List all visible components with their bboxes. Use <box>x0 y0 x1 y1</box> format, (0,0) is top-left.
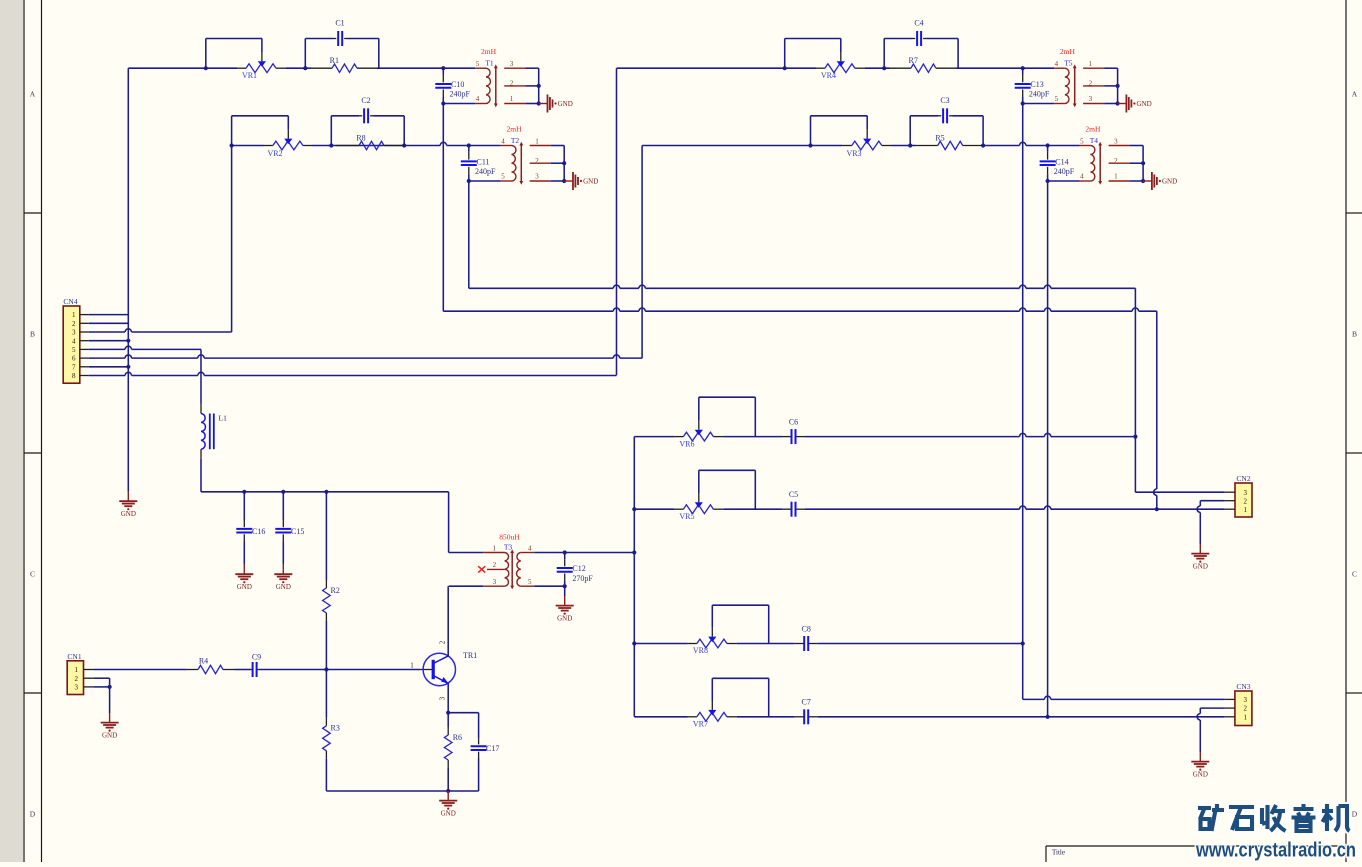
svg-text:2: 2 <box>439 640 447 644</box>
svg-text:4: 4 <box>501 137 505 145</box>
svg-text:850uH: 850uH <box>499 532 520 541</box>
potentiometer VR1 <box>246 64 276 73</box>
resistor R7 <box>911 64 936 72</box>
svg-text:GND: GND <box>583 178 598 186</box>
svg-text:C11: C11 <box>477 158 490 167</box>
svg-text:8: 8 <box>72 372 76 380</box>
wire oscillator rail y=491.8 <box>201 491 449 493</box>
svg-text:CN1: CN1 <box>67 652 81 661</box>
wire VR7 pin stubs <box>688 716 697 718</box>
frame zone tick right y=453 <box>1346 452 1362 454</box>
svg-text:4: 4 <box>476 95 480 103</box>
transistor TR1 <box>423 653 455 685</box>
svg-text:R6: R6 <box>453 733 462 742</box>
svg-text:C5: C5 <box>789 490 798 499</box>
wire CN4 pin5 net <box>89 348 125 350</box>
svg-text:GND: GND <box>1137 100 1152 108</box>
transformer T4 secondary pin 1 lead <box>1109 180 1130 182</box>
connector CN3 <box>1235 691 1252 726</box>
svg-text:R7: R7 <box>909 56 918 65</box>
wire R8 loop right <box>403 116 405 146</box>
wire VR3 row left vertical x=642.1 <box>641 146 643 359</box>
wire R4 pin stubs <box>187 669 198 671</box>
wire T4 primary top lead blue <box>1048 145 1080 147</box>
wire VR6 row y=436.6 <box>634 436 674 438</box>
wire VR7 row middle <box>737 716 795 718</box>
wire VR6 row middle <box>723 436 782 438</box>
junction base node <box>324 667 328 671</box>
resistor R4 <box>198 665 223 673</box>
wire T1 primary top lead blue <box>443 67 475 69</box>
svg-text:240pF: 240pF <box>450 90 471 99</box>
wire CN2 pin 3 stub <box>1225 491 1235 493</box>
wire VR1 right pin stub <box>276 67 286 69</box>
potentiometer VR3 <box>852 141 882 150</box>
ground T5 secondary <box>1118 103 1127 105</box>
svg-text:GND: GND <box>557 614 572 622</box>
capacitor C16 <box>243 492 245 520</box>
svg-text:A: A <box>1352 90 1358 99</box>
wire CN1 pin 3 stub <box>84 686 95 688</box>
svg-text:270pF: 270pF <box>572 574 593 583</box>
wire VR1 wiper loop <box>206 38 262 40</box>
capacitor C13 <box>1022 68 1024 74</box>
svg-text:5: 5 <box>528 578 532 586</box>
wire VR8 row right <box>818 643 1023 645</box>
junction bus VR5 row <box>632 507 636 511</box>
junction VR4 loop left <box>783 66 787 70</box>
svg-text:4: 4 <box>528 544 532 552</box>
junction T4 secondary pin1 <box>1141 179 1145 183</box>
svg-text:2: 2 <box>535 157 539 165</box>
svg-text:4: 4 <box>72 337 76 345</box>
svg-text:VR5: VR5 <box>679 512 694 521</box>
wire C13 node vertical x=1022.7 <box>1022 104 1024 700</box>
wire TR1 base stub <box>421 669 433 671</box>
junction VR2 left <box>230 143 234 147</box>
wire C8 pin stubs <box>795 643 805 645</box>
frame zone tick left y=453 <box>24 452 42 454</box>
junction C14 node joins CN3 pin1 row <box>1046 715 1050 719</box>
wire VR5 row y=509.2 <box>634 508 674 510</box>
ground CN3 <box>1199 752 1201 761</box>
wire VR5 pin stubs <box>674 508 683 510</box>
wire row-A-right horizontal y=68.2 <box>617 67 817 69</box>
transformer T3 secondary winding <box>517 553 521 587</box>
wire T3 secondary top out <box>534 552 634 554</box>
svg-text:1: 1 <box>75 666 79 674</box>
svg-text:1: 1 <box>1089 60 1093 68</box>
potentiometer VR5 <box>683 505 713 514</box>
svg-text:2: 2 <box>75 675 79 683</box>
capacitor C5 <box>791 502 793 517</box>
junction C10 top <box>441 66 445 70</box>
junction R8 loop right <box>402 143 406 147</box>
capacitor C17 <box>478 713 480 739</box>
svg-text:A: A <box>30 90 36 99</box>
wire C3 loop top <box>910 115 938 117</box>
wire C6 pin stubs <box>782 436 792 438</box>
svg-text:3: 3 <box>1114 137 1118 145</box>
junction T5 secondary pin2 <box>1116 84 1120 88</box>
wire VR4 pin stubs <box>816 67 825 69</box>
wire R1 C1 loop left <box>304 39 306 69</box>
potentiometer VR6 <box>683 432 713 441</box>
svg-text:C7: C7 <box>802 698 811 707</box>
wire CN3 pin 1 stub <box>1225 716 1235 718</box>
junction C12 bottom <box>563 584 567 588</box>
wire C5 pin stubs <box>782 508 792 510</box>
svg-text:3: 3 <box>75 684 79 692</box>
frame inner left line <box>41 0 43 862</box>
resistor R3 <box>325 670 327 718</box>
wire T2 primary top lead blue <box>469 145 501 147</box>
frame zone tick left y=693 <box>24 692 42 694</box>
svg-text:C16: C16 <box>252 527 265 536</box>
junction C11 top <box>467 143 471 147</box>
wire CN4 pin 2 stub <box>80 322 89 324</box>
junction VR1 loop left <box>204 66 208 70</box>
svg-text:D: D <box>30 810 36 819</box>
frame zone tick left y=213 <box>24 212 42 214</box>
svg-text:R4: R4 <box>199 656 208 665</box>
wire CN2 pin 2 stub <box>1225 500 1235 502</box>
wire C10 node horizontal y=311.2 <box>443 310 613 312</box>
wire emitter ground bus y=791 <box>326 790 478 792</box>
svg-text:3: 3 <box>510 60 514 68</box>
junction VR8 row joins C13 node <box>1021 641 1025 645</box>
ground emitter <box>447 791 449 800</box>
svg-text:VR8: VR8 <box>693 646 708 655</box>
wire CN1 pin 1 stub <box>84 669 95 671</box>
svg-text:VR3: VR3 <box>846 149 861 158</box>
svg-text:GND: GND <box>558 100 573 108</box>
transformer T4 secondary pin 2 lead <box>1109 162 1130 164</box>
wire VR3 pin stubs <box>842 145 852 147</box>
wire CN4 pin 7 stub <box>80 366 89 368</box>
transformer T5 core <box>1074 67 1076 106</box>
wire VR2 pin stubs <box>264 145 273 147</box>
svg-text:240pF: 240pF <box>1054 167 1075 176</box>
svg-text:2: 2 <box>510 80 514 88</box>
wire VR5 row right <box>805 508 1020 510</box>
svg-text:R3: R3 <box>331 724 340 733</box>
transformer T1 core <box>495 67 497 106</box>
wire CN4 pin 4 stub <box>80 340 89 342</box>
svg-text:C10: C10 <box>451 80 464 89</box>
wire T1 primary bottom lead blue <box>443 103 475 105</box>
wire emitter node horizontal <box>448 712 478 714</box>
svg-text:C15: C15 <box>291 527 304 536</box>
wire T3 pin3 lead blue <box>449 585 484 587</box>
wire CN3 pin3 row y=699.4 <box>1023 698 1045 700</box>
svg-text:T2: T2 <box>511 136 520 145</box>
junction R1 loop left <box>303 66 307 70</box>
svg-text:3: 3 <box>72 329 76 337</box>
junction CN4 pin4 <box>126 339 130 343</box>
wire CN2 pin3 row y=492.2 <box>1135 491 1224 493</box>
svg-text:L1: L1 <box>219 414 228 423</box>
transformer T4 primary <box>1080 145 1091 147</box>
junction R8 loop left <box>329 143 333 147</box>
potentiometer VR2 <box>273 141 303 150</box>
svg-text:GND: GND <box>237 583 252 591</box>
svg-text:3: 3 <box>439 696 447 700</box>
wire CN2 pin 1 stub <box>1225 508 1235 510</box>
capacitor C9 <box>251 669 253 671</box>
svg-text:240pF: 240pF <box>1029 90 1050 99</box>
svg-text:GND: GND <box>1193 562 1208 570</box>
transformer T1 primary <box>475 67 486 69</box>
capacitor C6 <box>791 429 793 444</box>
sheet margin grey strip <box>0 0 23 862</box>
potentiometer VR4 <box>825 64 855 73</box>
ground C15 <box>282 565 284 574</box>
wire T2 primary bottom lead blue <box>469 180 501 182</box>
svg-text:R2: R2 <box>331 586 340 595</box>
svg-text:3: 3 <box>493 578 497 586</box>
wire CN4 pin 8 stub <box>80 375 89 377</box>
wire VR6 row right <box>805 436 1020 438</box>
transformer T2 core <box>520 144 522 183</box>
junction bus T3 feed <box>632 550 636 554</box>
svg-text:3: 3 <box>1089 95 1093 103</box>
svg-text:2mH: 2mH <box>507 124 523 133</box>
junction C12 top <box>563 550 567 554</box>
junction R5 loop left <box>908 143 912 147</box>
wire antenna riser x=201 <box>200 349 202 404</box>
wire VR8 row middle <box>737 643 795 645</box>
wire TR1 emitter <box>447 683 449 712</box>
wire hop row-B-right over C13 vertical <box>1020 142 1026 145</box>
wire VR3 wiper loop <box>811 115 868 117</box>
wire CN1 ground drop <box>109 687 111 713</box>
capacitor C2 <box>359 115 362 117</box>
frame zone tick right y=693 <box>1346 692 1362 694</box>
wire base row y=669.5 <box>94 669 187 671</box>
svg-text:C14: C14 <box>1055 158 1068 167</box>
svg-text:R8: R8 <box>356 134 365 143</box>
svg-text:VR7: VR7 <box>693 720 708 729</box>
junction VR3 loop left <box>808 143 812 147</box>
svg-text:1: 1 <box>1243 713 1247 721</box>
svg-text:B: B <box>1352 330 1357 339</box>
ground C16 <box>243 565 245 574</box>
svg-text:C: C <box>30 570 35 579</box>
svg-text:GND: GND <box>121 510 136 518</box>
transformer T2 secondary pin 3 lead <box>530 180 551 182</box>
wire C7 pin stubs <box>795 716 805 718</box>
wire VR1 left pin stub <box>237 67 246 69</box>
svg-text:4: 4 <box>1055 60 1059 68</box>
svg-text:C: C <box>1352 570 1357 579</box>
wire VR7 row y=716.8 <box>634 716 688 718</box>
svg-text:5: 5 <box>1080 137 1084 145</box>
wire C12 ground drop <box>564 586 566 596</box>
capacitor C1 <box>333 38 336 40</box>
wire CN2 pin2 ground wire <box>1200 500 1224 502</box>
transformer T3 secondary leads <box>521 552 534 554</box>
transformer T3 primary leads <box>483 552 505 554</box>
svg-text:B: B <box>30 330 35 339</box>
wire CN4 pin2 to ground rail <box>89 322 129 324</box>
svg-text:www.crystalradio.cn: www.crystalradio.cn <box>1195 840 1356 862</box>
wire R7 loop right <box>957 39 959 69</box>
wire C2 loop top <box>331 115 359 117</box>
svg-text:C13: C13 <box>1030 80 1043 89</box>
junction C11 bottom <box>467 179 471 183</box>
resistor R1 <box>332 64 357 72</box>
wire T2 secondary common <box>551 145 565 147</box>
title block top line <box>1046 845 1346 847</box>
transformer T5 secondary pin 3 lead <box>1083 103 1104 105</box>
wire T3 secondary bottom out <box>534 585 565 587</box>
connector CN4 <box>63 306 80 383</box>
junction C10 bottom <box>441 101 445 105</box>
junction CN4 pin7 <box>126 365 130 369</box>
connector CN2 <box>1235 483 1252 517</box>
svg-text:1: 1 <box>72 311 76 319</box>
wire CN3 pin 2 stub <box>1225 707 1235 709</box>
svg-text:C2: C2 <box>361 96 370 105</box>
svg-text:5: 5 <box>476 60 480 68</box>
wire C14 node vertical x=1047.6 <box>1047 181 1049 717</box>
inductor L1 <box>200 404 202 414</box>
svg-text:2mH: 2mH <box>481 47 497 56</box>
svg-text:2: 2 <box>1089 80 1093 88</box>
wire VR2 left vertical <box>231 116 233 146</box>
wire CN4 pin4 to ground rail <box>89 340 129 342</box>
svg-text:D: D <box>1352 810 1358 819</box>
wire CN1 pin2 wire <box>94 677 110 679</box>
ground CN1 <box>109 713 111 722</box>
ground CN2 <box>1199 544 1201 553</box>
svg-text:2: 2 <box>1114 157 1118 165</box>
svg-text:1: 1 <box>535 137 539 145</box>
junction T2 secondary pin2 <box>562 161 566 165</box>
wire C10 node vertical x=443.3 <box>442 104 444 312</box>
wire C1 loop top <box>305 38 333 40</box>
svg-text:GND: GND <box>1193 770 1208 778</box>
svg-text:GND: GND <box>1162 178 1177 186</box>
junction R6 bottom <box>446 789 450 793</box>
svg-text:1: 1 <box>410 661 414 669</box>
resistor R6 <box>447 713 449 727</box>
svg-text:VR2: VR2 <box>267 149 282 158</box>
wire VR4 wiper loop <box>785 38 841 40</box>
junction T1 secondary pin1 <box>537 101 541 105</box>
svg-text:6: 6 <box>72 355 76 363</box>
wire TR1 collector <box>447 586 449 656</box>
svg-text:T1: T1 <box>485 59 494 68</box>
svg-text:C9: C9 <box>252 653 261 662</box>
svg-text:Title: Title <box>1052 849 1065 857</box>
svg-text:C3: C3 <box>940 96 949 105</box>
wire VR7 row right <box>818 716 1225 718</box>
svg-text:VR1: VR1 <box>242 71 257 80</box>
resistor R5 <box>938 141 963 149</box>
wire R8 C2 loop left <box>330 116 332 146</box>
ground C12 <box>564 596 566 605</box>
watermark crystalradio logo <box>1198 804 1350 831</box>
wire CN4 pin 1 stub <box>80 314 89 316</box>
capacitor C12 <box>564 553 566 560</box>
svg-text:C17: C17 <box>486 744 499 753</box>
wire CN4 pin7 to ground rail <box>89 366 129 368</box>
wire C11 node vertical x=468.8 <box>468 181 470 288</box>
junction rail C16 <box>242 490 246 494</box>
junction bus VR8 row <box>632 641 636 645</box>
wire R7 pin stubs <box>890 67 911 69</box>
svg-text:C4: C4 <box>914 19 923 28</box>
transformer T4 secondary pin 3 lead <box>1109 145 1130 147</box>
ground T2 secondary <box>564 180 573 182</box>
wire R5 loop right <box>982 116 984 146</box>
transformer T3 pin2 no-connect cross <box>478 566 485 572</box>
wire hop row-B over C10 vertical <box>439 145 441 147</box>
connector CN1 <box>67 661 83 695</box>
wire row-A-left horizontal y=68.2 <box>128 67 237 69</box>
junction C13 top <box>1021 66 1025 70</box>
svg-text:3: 3 <box>1244 489 1248 497</box>
junction rail C15 <box>281 490 285 494</box>
junction CN1 pin3 <box>108 685 112 689</box>
capacitor C10 <box>442 68 444 74</box>
wire row-B-left horizontal y=145.5 <box>232 145 264 147</box>
wire CN4 pin6 net <box>89 357 125 359</box>
transformer T3 primary winding <box>505 553 509 587</box>
junction rail R2 <box>324 490 328 494</box>
svg-text:CN4: CN4 <box>63 297 77 306</box>
wire VR7 wiper loop <box>712 677 768 679</box>
wire VR5 wiper loop <box>699 469 756 471</box>
wire VR4 row left vertical x=616.5 <box>616 68 618 375</box>
svg-text:2mH: 2mH <box>1085 124 1101 133</box>
wire row-B-right horizontal y=145.5 <box>642 145 842 147</box>
inductor L1 core lines <box>209 414 211 450</box>
svg-text:GND: GND <box>102 731 117 739</box>
wire CN4 pin3 net <box>89 331 125 333</box>
svg-text:C6: C6 <box>789 418 798 427</box>
svg-text:2mH: 2mH <box>1060 47 1076 56</box>
svg-text:C8: C8 <box>802 624 811 633</box>
svg-text:7: 7 <box>72 363 76 371</box>
wire C4 loop top <box>884 38 912 40</box>
wire T5 primary bottom lead blue <box>1023 103 1054 105</box>
svg-text:CN2: CN2 <box>1236 474 1250 483</box>
wire T1 secondary common <box>525 67 539 69</box>
transformer T2 secondary pin 1 lead <box>530 145 551 147</box>
capacitor C14 <box>1047 146 1049 152</box>
capacitor C15 <box>282 492 284 520</box>
junction R5 loop right <box>981 143 985 147</box>
transformer T5 secondary pin 2 lead <box>1083 85 1104 87</box>
transformer T4 core <box>1099 144 1101 183</box>
wire tuned bus vertical x=634.3 <box>633 437 635 717</box>
svg-text:2: 2 <box>1244 497 1248 505</box>
wire CN3 pin2 ground wire <box>1200 707 1224 709</box>
wire CN1 pin3 wire <box>94 686 110 688</box>
svg-text:C12: C12 <box>572 564 585 573</box>
wire CN4 pin 3 stub <box>80 331 89 333</box>
junction C14 bottom <box>1046 179 1050 183</box>
transformer T5 secondary pin 1 lead <box>1083 67 1104 69</box>
wire CN1 pin 2 stub <box>84 677 95 679</box>
svg-text:1: 1 <box>1114 172 1118 180</box>
junction T2 secondary pin3 <box>562 179 566 183</box>
transformer T5 primary <box>1054 67 1065 69</box>
wire T5 secondary common <box>1104 67 1118 69</box>
